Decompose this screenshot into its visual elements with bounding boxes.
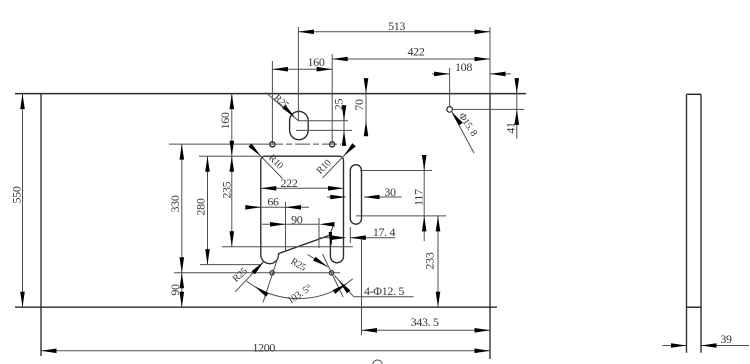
dim 90 mid (262, 223, 319, 225)
70 arrows (outside) (364, 78, 369, 94)
dim 103.5deg arc (247, 279, 353, 299)
svg-text:17. 4: 17. 4 (373, 225, 396, 239)
ext: bottom holes centerline (174, 272, 340, 274)
plate front view: left edge (with ext down to 1200-dim) (40, 94, 42, 356)
svg-text:R10: R10 (315, 158, 334, 177)
hole bottom-left Φ12.5 (270, 271, 274, 275)
svg-text:39: 39 (720, 332, 732, 346)
343.5 arrows (362, 328, 378, 333)
280 arrows (205, 156, 210, 172)
R25 middle leader (308, 255, 328, 267)
svg-text:30: 30 (384, 185, 396, 199)
160 left arrows (230, 94, 235, 110)
ext: oval bottom cap center line (25 dim) (296, 129, 352, 131)
ext: 343.5 vertical from slot (361, 236, 363, 335)
svg-text:103. 5°: 103. 5° (286, 283, 315, 307)
dim 30 (327, 196, 346, 198)
angular ext line left (through bottom-left hole) (263, 253, 280, 303)
dim 70 (365, 80, 367, 134)
svg-text:41: 41 (503, 122, 517, 134)
4-Φ12.5 leader (354, 296, 414, 298)
R25 leader to oval slot (266, 93, 299, 121)
svg-text:4-Φ12. 5: 4-Φ12. 5 (364, 284, 404, 298)
svg-text:235: 235 (220, 181, 234, 198)
30 arrows (outside) (330, 195, 346, 200)
550 arrows (20, 94, 25, 110)
dim 233 (437, 216, 439, 307)
central cutout with R10 top corners and R25 bottom legs (261, 156, 344, 263)
422 arrows (332, 57, 348, 62)
ext: 422 left vertical to top-right hole (331, 54, 333, 144)
90 mid arrows (outside) (270, 222, 286, 227)
dim 160 top (272, 68, 332, 70)
66 arrows (outside) (245, 205, 261, 210)
222 arrows (261, 186, 277, 191)
svg-text:1200: 1200 (252, 340, 275, 354)
dim 66 (246, 206, 309, 208)
160 top arrows (272, 67, 288, 72)
svg-text:550: 550 (9, 186, 23, 203)
centerline through top holes (solid part from 330-dim) (169, 143, 268, 145)
103.5 arc arrows (333, 282, 349, 294)
svg-text:222: 222 (281, 176, 298, 190)
dim 343.5 (362, 329, 491, 331)
Φ15.8 leader (452, 112, 474, 153)
17.4 arrows (331, 235, 347, 240)
dim 550 (22, 94, 24, 308)
ext: 235 bottom long line (222, 246, 353, 248)
hole bottom-right Φ12.5 (329, 271, 333, 275)
plate front view: bottom edge (15, 306, 497, 308)
svg-text:108: 108 (455, 60, 472, 74)
svg-text:330: 330 (168, 195, 182, 212)
angular ext line right (through bottom-right hole) (323, 254, 344, 297)
vertical obround slot (30 wide) (350, 165, 361, 225)
svg-text:25: 25 (332, 99, 346, 111)
R10 left leader (253, 148, 261, 157)
svg-text:233: 233 (423, 252, 437, 269)
small circle cut by bottom edge (373, 360, 383, 364)
R10 right leader (344, 148, 352, 156)
513 arrows (298, 30, 314, 35)
ext: 513/422 right vertical above plate corner (489, 27, 491, 94)
svg-text:90: 90 (168, 284, 182, 296)
39 arrows (outside) (671, 343, 687, 348)
dim 1200 (41, 350, 490, 352)
17.4 vertical black bar (329, 232, 332, 247)
svg-text:513: 513 (388, 19, 405, 33)
25 arrows (outside) (342, 105, 347, 121)
ext: 513 vertical to oval center (297, 27, 299, 121)
svg-text:280: 280 (194, 198, 208, 215)
ext: slot top cap line (117) (360, 170, 432, 172)
hole top-right Φ12.5 (330, 142, 335, 147)
R25 bottom-left leader (235, 262, 264, 292)
330 arrows (180, 144, 185, 160)
dim 222 (261, 187, 344, 189)
dim 39 (663, 345, 687, 347)
centerline dash-dot through top holes (268, 143, 341, 145)
plate front view: right edge (with ext down to 1200-dim) (489, 94, 491, 359)
235 arrows (230, 156, 235, 172)
dim 17.4 (320, 237, 334, 239)
dim 25 (343, 107, 345, 145)
90 left arrows (180, 273, 185, 289)
117 arrows (outside) (422, 155, 427, 171)
hole Φ15.8 top right (447, 107, 453, 113)
ext: 90-mid vertical (318, 218, 320, 248)
ext: 66 vertical (285, 202, 287, 251)
oval slot R25 (top) (290, 111, 309, 139)
ext: cutout top (160L/280/235) (199, 155, 261, 157)
dim 41 (516, 84, 518, 139)
ext: 108 vertical to Φ15.8 hole (449, 68, 451, 107)
dim 108 (432, 73, 450, 75)
ext: slot bottom cap line (117/233) (356, 215, 446, 217)
dim 235 (231, 156, 233, 247)
svg-text:422: 422 (408, 45, 425, 59)
108 arrows (434, 72, 450, 77)
svg-text:343. 5: 343. 5 (411, 315, 439, 329)
svg-text:160: 160 (218, 112, 232, 129)
ext: 160-top left vertical to top-left hole (271, 61, 273, 144)
dim 280 (207, 156, 209, 264)
dim 422 (332, 58, 490, 60)
233 arrows (436, 216, 441, 232)
ext: slot left edge down (17.4) (349, 227, 351, 243)
svg-text:117: 117 (411, 189, 425, 206)
svg-text:160: 160 (308, 55, 325, 69)
dim 117 (423, 158, 425, 241)
1200 arrows (41, 349, 57, 354)
centerline of Φ15.8 hole to right (452, 108, 524, 110)
svg-text:R10: R10 (266, 153, 285, 172)
svg-text:66: 66 (267, 194, 279, 208)
hole top-left Φ12.5 (270, 142, 275, 147)
ext: cutout bottom (280/330) (200, 264, 260, 266)
41 arrows (outside) (515, 78, 520, 94)
svg-text:70: 70 (352, 99, 366, 111)
dim 330 + 90 shared line (181, 144, 183, 307)
dim 160 left (231, 94, 233, 157)
plate front view: top edge (with ext to 41-dim) (15, 93, 526, 95)
svg-text:R25: R25 (288, 256, 307, 274)
ext: oval top cap center line (70/25 dims) (298, 120, 348, 122)
dim 513 (298, 31, 490, 33)
svg-text:90: 90 (291, 212, 303, 226)
side view rectangle (687, 93, 702, 95)
